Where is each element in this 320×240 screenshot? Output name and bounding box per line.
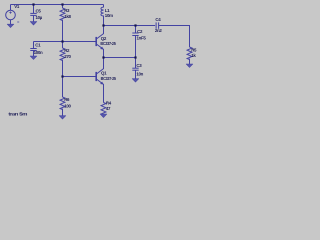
resistor R5 [187, 47, 192, 64]
svg-text:C4: C4 [155, 17, 161, 22]
transistor Q1 [96, 58, 104, 103]
wire V1 top lead [10, 5, 12, 11]
wire Q1 base rail [63, 76, 97, 78]
capacitor C2 [132, 26, 138, 58]
wire output rail [104, 25, 156, 27]
svg-text:tran 5m: tran 5m [8, 111, 27, 116]
svg-text:100: 100 [64, 103, 71, 108]
svg-text:R5: R5 [191, 47, 197, 52]
ground (R4) [100, 114, 107, 117]
wire R3 top lead [62, 5, 64, 9]
svg-text:BC337-25: BC337-25 [100, 41, 116, 46]
junction node emitter [102, 56, 104, 58]
svg-text:10µ: 10µ [36, 15, 43, 20]
svg-text:10m: 10m [105, 13, 113, 18]
wire top rail [11, 4, 104, 6]
ground (R6) [59, 116, 66, 119]
ground (V1) [7, 24, 14, 27]
voltage source V1 [6, 10, 16, 20]
junction node C2 top [134, 24, 136, 26]
svg-text:R3: R3 [64, 8, 70, 13]
junction node C2/C3 [134, 56, 136, 58]
svg-text:Q1: Q1 [101, 70, 107, 75]
capacitor C3 [132, 58, 138, 79]
resistor R6 [60, 77, 65, 116]
ground (R5) [186, 64, 193, 67]
svg-text:R6: R6 [64, 97, 70, 102]
junction node C5/rail [32, 3, 34, 5]
svg-text:R2: R2 [64, 48, 70, 53]
svg-text:100n: 100n [34, 50, 43, 55]
V1 polarity marks [9, 11, 19, 22]
svg-text:1nF5: 1nF5 [137, 36, 147, 41]
svg-text:2n2: 2n2 [155, 28, 163, 33]
wire emitter node rail [104, 57, 136, 59]
capacitor C1 [30, 49, 36, 57]
resistor R3 [60, 8, 65, 21]
wire V1 bottom lead [10, 20, 12, 24]
svg-text:1k8: 1k8 [64, 14, 71, 19]
svg-text:47: 47 [106, 106, 111, 111]
svg-text:C3: C3 [136, 63, 142, 68]
wire Q2 base rail [34, 41, 97, 43]
junction node Q2 base [61, 40, 63, 42]
svg-text:C2: C2 [137, 29, 143, 34]
svg-text:V1: V1 [14, 4, 20, 9]
wire C4 to load [159, 26, 190, 48]
svg-text:1k: 1k [191, 53, 196, 58]
transistor Q2 [96, 26, 104, 58]
junction node Q1 base [61, 75, 63, 77]
svg-text:R4: R4 [106, 101, 112, 106]
ground (C3) [132, 79, 139, 82]
svg-text:BC337-25: BC337-25 [101, 76, 117, 81]
svg-text:10n: 10n [136, 71, 143, 76]
ground (C1) [30, 56, 37, 59]
svg-text:C1: C1 [35, 43, 41, 48]
inductor L1 [101, 5, 104, 26]
wire C1 top lead [33, 42, 35, 49]
wire R3 to Q2 base node [62, 20, 64, 42]
resistor R2 [60, 42, 65, 77]
junction node R3/rail [61, 3, 63, 5]
ground (C5) [30, 22, 37, 25]
capacitor C5 [30, 13, 36, 21]
junction node collector/output [102, 24, 104, 26]
resistor R4 [101, 103, 106, 116]
svg-text:270: 270 [64, 54, 71, 59]
wire C5 top lead [33, 5, 35, 14]
svg-text:C5: C5 [36, 8, 42, 13]
capacitor C4 [156, 22, 159, 28]
